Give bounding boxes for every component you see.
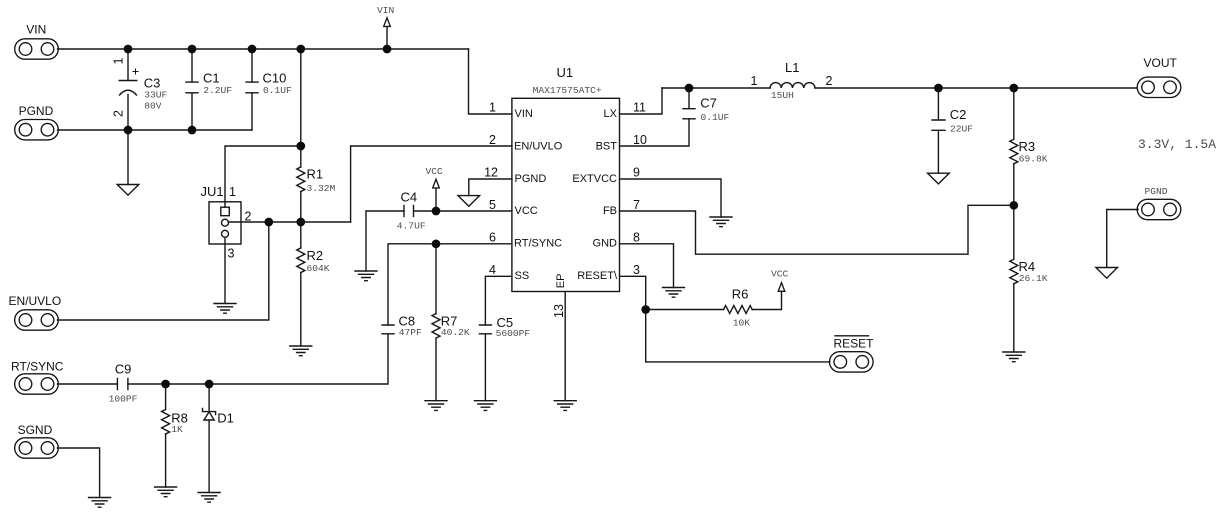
svg-text:VCC: VCC — [515, 205, 538, 217]
junction VIN rail C1 — [188, 45, 197, 54]
ground power triangle at input — [117, 185, 139, 196]
wire R2 bottom leg to ground — [300, 273, 302, 347]
pin 8 GND — [593, 231, 640, 250]
wire PGND rail to ground — [127, 130, 129, 185]
svg-text:R1: R1 — [307, 167, 324, 182]
junction VIN rail arrow — [383, 45, 392, 54]
svg-text:5: 5 — [489, 198, 496, 212]
svg-text:22UF: 22UF — [950, 124, 973, 135]
pin 5 VCC — [489, 198, 538, 217]
capacitor C7 labels — [700, 96, 729, 124]
svg-text:0.1UF: 0.1UF — [263, 85, 292, 96]
capacitor C7 — [683, 109, 695, 119]
wire VIN top rail — [58, 48, 469, 50]
svg-text:15UH: 15UH — [771, 90, 794, 101]
svg-text:2: 2 — [489, 133, 496, 147]
wire SGND connector to ground — [58, 448, 100, 498]
svg-text:0.1UF: 0.1UF — [701, 112, 730, 123]
svg-text:11: 11 — [633, 101, 646, 115]
inductor L1 labels — [751, 60, 833, 101]
wire R7 bottom leg to ground — [435, 338, 437, 401]
resistor R2 — [297, 248, 305, 273]
svg-text:RESET: RESET — [834, 336, 875, 350]
wire R1 top leg — [300, 146, 302, 167]
capacitor C4 labels — [397, 190, 426, 232]
junction RESET R6 node — [641, 305, 650, 314]
ground signal below JU1 — [214, 304, 236, 314]
connector J8 PGND output — [1137, 186, 1181, 220]
wire C5 bottom leg to ground — [484, 334, 486, 401]
wire D1 bottom leg to ground — [208, 420, 210, 493]
svg-text:5600PF: 5600PF — [496, 328, 531, 339]
wire RT/SYNC connector to C9 — [58, 383, 118, 385]
capacitor C1 labels — [203, 70, 232, 96]
svg-text:4.7UF: 4.7UF — [397, 221, 426, 232]
svg-text:JU1: JU1 — [201, 184, 224, 199]
svg-text:7: 7 — [633, 198, 640, 212]
wire C10 bottom leg — [251, 93, 253, 130]
wire VCC arrow leg — [435, 188, 437, 211]
svg-text:BST: BST — [596, 140, 618, 152]
svg-text:2: 2 — [826, 74, 833, 88]
svg-text:604K: 604K — [307, 263, 330, 274]
resistor R6 — [724, 306, 753, 314]
wire PGND bottom rail — [58, 129, 253, 131]
junction dots left — [124, 45, 392, 389]
svg-text:PGND: PGND — [515, 173, 547, 185]
resistor R8 labels — [171, 411, 188, 436]
wire LX rail to L1 — [662, 87, 770, 89]
connector J3 VOUT — [1137, 56, 1181, 98]
svg-text:1: 1 — [112, 58, 126, 65]
ground signal below EP — [554, 401, 576, 411]
junction PGND rail C3 — [124, 126, 133, 135]
svg-text:VOUT: VOUT — [1144, 56, 1178, 70]
ground signal below C5 — [474, 401, 496, 411]
capacitor C10 — [246, 82, 258, 93]
connector J1 VIN — [15, 23, 59, 60]
capacitor C2 labels — [950, 107, 973, 135]
wire FB pin 7 to divider — [620, 205, 1014, 254]
ground signal below C4 — [355, 271, 377, 281]
resistor R6 labels — [732, 287, 751, 329]
svg-text:1K: 1K — [171, 424, 183, 435]
wire R7 top leg — [435, 244, 437, 314]
svg-text:3: 3 — [228, 247, 235, 261]
svg-text:R2: R2 — [307, 248, 324, 263]
pin 6 RT/SYNC — [489, 231, 562, 250]
wire R3 top leg — [1013, 88, 1015, 139]
svg-text:VIN: VIN — [26, 23, 46, 37]
node VCC power arrow at R6 — [771, 269, 789, 292]
ground signal below GND pin 8 — [663, 288, 685, 298]
svg-text:EN/UVLO: EN/UVLO — [9, 294, 62, 308]
svg-text:1: 1 — [489, 101, 496, 115]
pin 7 FB — [603, 198, 640, 217]
inductor L1 — [770, 83, 815, 88]
svg-text:PGND: PGND — [19, 104, 54, 118]
svg-text:69.8K: 69.8K — [1019, 153, 1048, 164]
wire VIN rail drop to pin 1 — [469, 49, 512, 114]
wire L1 to VOUT — [815, 87, 1137, 89]
svg-text:SS: SS — [515, 270, 530, 282]
wire R4 top leg — [1013, 205, 1015, 259]
wire EN/UVLO connector branch — [58, 222, 269, 320]
resistor R1 labels — [307, 167, 336, 195]
resistor R1 — [297, 167, 305, 192]
resistor R7 — [432, 314, 440, 339]
wire GND pin 8 to ground — [620, 244, 674, 288]
junction VOUT rail C2 — [934, 84, 943, 93]
wire VIN rail to R1 node — [300, 49, 302, 146]
ground power triangle at pin 12 — [458, 196, 480, 207]
svg-text:2.2UF: 2.2UF — [203, 85, 232, 96]
wire RESET pin 3 drop — [620, 276, 646, 362]
ground signal below R8 — [155, 487, 177, 497]
svg-text:VIN: VIN — [377, 5, 394, 16]
junction RT row D1 — [205, 380, 214, 389]
pin 2 EN/UVLO — [489, 133, 563, 152]
wire LX pin 11 riser — [620, 88, 663, 114]
svg-text:R4: R4 — [1019, 259, 1036, 274]
svg-text:33UF: 33UF — [144, 90, 167, 101]
svg-text:3.3V, 1.5A: 3.3V, 1.5A — [1138, 137, 1216, 152]
wire C10 top leg — [251, 49, 253, 82]
capacitor C5 labels — [496, 315, 531, 339]
connector J5 EN/UVLO — [9, 294, 62, 330]
svg-text:C4: C4 — [401, 190, 418, 205]
wire R6 left leg — [646, 309, 724, 311]
capacitor C3 labels — [144, 76, 168, 112]
svg-text:C9: C9 — [115, 362, 132, 377]
junction PGND rail C1 — [188, 126, 197, 135]
svg-text:R3: R3 — [1019, 139, 1036, 154]
wire R8 top leg — [165, 384, 167, 410]
junction dots right — [641, 84, 1018, 314]
wire C5 leg from SS pin 4 — [485, 276, 512, 325]
junction dot RT/SYNC pin 6 node — [432, 239, 441, 248]
wire C3 top leg — [127, 49, 129, 81]
capacitor C8 labels — [399, 314, 422, 338]
capacitor C10 labels — [263, 70, 293, 96]
svg-text:9: 9 — [633, 166, 640, 180]
svg-text:4: 4 — [489, 263, 496, 277]
svg-text:13: 13 — [552, 304, 566, 318]
svg-text:1: 1 — [229, 185, 236, 199]
wire EXTVCC pin 9 to ground — [620, 179, 722, 217]
resistor R4 — [1010, 259, 1018, 284]
pin 3 RESET — [577, 263, 640, 282]
svg-text:3: 3 — [633, 263, 640, 277]
resistor R2 labels — [307, 248, 330, 274]
svg-text:C2: C2 — [950, 107, 967, 122]
op-amp U1 IC box — [512, 98, 620, 291]
resistor R3 labels — [1019, 139, 1048, 164]
wire C1 bottom leg — [191, 93, 193, 130]
resistor R4 labels — [1019, 259, 1048, 284]
capacitor C1 — [186, 82, 198, 93]
wire R1 node to JU1 pin 1 — [225, 146, 301, 207]
svg-text:VIN: VIN — [515, 108, 533, 120]
ground signal below R2 — [290, 346, 312, 356]
wire R2 top leg — [300, 222, 302, 248]
junction R1 bottom node — [296, 218, 305, 227]
wire R4 bottom leg to ground — [1013, 284, 1015, 352]
wire JU1 pin 3 to ground — [224, 237, 226, 303]
svg-text:VCC: VCC — [426, 166, 444, 177]
svg-text:80V: 80V — [144, 100, 162, 111]
svg-text:RT/SYNC: RT/SYNC — [514, 238, 562, 250]
svg-text:EXTVCC: EXTVCC — [572, 173, 617, 185]
svg-text:40.2K: 40.2K — [441, 327, 470, 338]
pin 11 LX — [604, 101, 646, 120]
connector J7 SGND — [15, 423, 59, 458]
ground power triangle below C2 — [928, 173, 950, 184]
capacitor C9 labels — [109, 362, 138, 405]
capacitor C8 — [382, 325, 394, 334]
wire C1 top leg — [191, 49, 193, 82]
resistor R7 labels — [441, 314, 470, 338]
wire JU1 pin 2 to EN row — [229, 221, 351, 223]
wire C3 bottom leg — [127, 95, 129, 131]
svg-text:26.1K: 26.1K — [1019, 273, 1048, 284]
svg-text:EN/UVLO: EN/UVLO — [514, 140, 563, 152]
ground power triangle below PGND connector — [1096, 268, 1118, 279]
svg-text:FB: FB — [603, 205, 617, 217]
junction dot VCC pin 5 node — [432, 207, 441, 216]
junction FB divider node — [1009, 201, 1018, 210]
wire C2 top leg — [937, 88, 939, 120]
svg-text:1: 1 — [751, 74, 758, 88]
resistor R3 — [1010, 139, 1018, 164]
svg-text:10K: 10K — [733, 318, 751, 329]
capacitor C4 — [404, 206, 414, 217]
svg-text:6: 6 — [489, 231, 496, 245]
svg-text:LX: LX — [604, 108, 618, 120]
wire RESET row to connector — [646, 361, 830, 363]
svg-text:3.32M: 3.32M — [307, 183, 336, 194]
junction VIN rail C3 — [124, 45, 133, 54]
diode D1 zener — [203, 409, 216, 421]
svg-text:C1: C1 — [203, 70, 220, 85]
pin 1 VIN — [489, 101, 533, 120]
node VCC power arrow at pin 5 — [426, 166, 444, 188]
pin 9 EXTVCC — [572, 166, 640, 185]
ground signal below D1 — [198, 493, 220, 503]
ground signal below EXTVCC — [710, 217, 732, 227]
wire C7 top leg — [688, 88, 690, 109]
svg-text:RT/SYNC: RT/SYNC — [11, 360, 64, 374]
capacitor C9 — [117, 379, 128, 390]
svg-text:47PF: 47PF — [399, 327, 422, 338]
svg-text:2: 2 — [112, 110, 126, 117]
wire D1 top leg — [208, 384, 210, 412]
wire C4 left leg to ground — [366, 211, 404, 271]
svg-text:VCC: VCC — [771, 269, 789, 280]
svg-text:L1: L1 — [785, 60, 799, 75]
svg-text:100PF: 100PF — [109, 394, 138, 405]
jumper JU1 labels — [201, 184, 252, 261]
wire C9 to C8 bottom — [128, 334, 388, 384]
op-amp U1 labels — [533, 65, 602, 96]
svg-text:8: 8 — [633, 231, 640, 245]
wire C7 bottom to BST pin 10 — [620, 119, 690, 146]
wire C4 to VCC pin 5 — [414, 210, 512, 212]
capacitor C3 plus sign — [133, 69, 138, 74]
wire C2 bottom leg to ground — [937, 130, 939, 173]
svg-text:EP: EP — [555, 274, 567, 289]
svg-text:GND: GND — [593, 238, 618, 250]
svg-text:MAX17575ATC+: MAX17575ATC+ — [533, 85, 602, 96]
ground signal below SGND — [89, 498, 111, 508]
connector J4 RESET — [830, 336, 875, 372]
svg-text:C3: C3 — [144, 76, 161, 91]
junction R1 top node — [296, 142, 305, 151]
junction RT row R8 — [161, 380, 170, 389]
svg-text:R6: R6 — [732, 287, 749, 302]
wire R3 bottom leg — [1013, 164, 1015, 206]
pin 12 PGND — [484, 166, 546, 185]
capacitor C3 — [119, 81, 136, 96]
junction VOUT rail R3 — [1009, 84, 1018, 93]
junction EN connector node — [264, 218, 273, 227]
wire EP pad to ground — [564, 292, 566, 401]
svg-text:C7: C7 — [700, 96, 717, 111]
pin 10 BST — [596, 133, 647, 152]
ground signal below R7 — [425, 401, 447, 411]
junction VIN rail C10 — [248, 45, 257, 54]
wire RT/SYNC pin 6 row — [388, 244, 512, 325]
wire PGND connector to triangle — [1107, 210, 1138, 268]
pin 4 SS — [489, 263, 529, 282]
svg-text:12: 12 — [484, 166, 498, 180]
jumper JU1 — [209, 202, 241, 244]
svg-text:PGND: PGND — [1145, 186, 1168, 197]
junction LX rail C7 — [685, 84, 694, 93]
capacitor C2 — [932, 120, 945, 130]
junction VIN rail R1 — [296, 45, 305, 54]
capacitor C5 — [479, 325, 491, 334]
svg-text:U1: U1 — [557, 65, 574, 80]
wire R8 bottom leg to ground — [165, 434, 167, 487]
ground signal below R4 — [1003, 352, 1025, 362]
node VIN power arrow — [377, 5, 394, 49]
wire EN row riser to pin 2 — [351, 146, 512, 222]
svg-text:2: 2 — [245, 210, 252, 224]
svg-text:C10: C10 — [263, 70, 287, 85]
resistor R8 — [162, 410, 170, 435]
svg-text:SGND: SGND — [18, 423, 53, 437]
connector J2 PGND — [15, 104, 59, 140]
svg-text:10: 10 — [633, 133, 647, 147]
wire pin 12 to PGND triangle — [469, 179, 512, 196]
wire R1 bottom leg — [300, 192, 302, 223]
svg-text:RESET\: RESET\ — [577, 270, 618, 282]
svg-text:D1: D1 — [217, 411, 234, 426]
wire R6 right leg to VCC arrow — [752, 291, 781, 309]
connector J6 RT/SYNC — [11, 360, 64, 395]
